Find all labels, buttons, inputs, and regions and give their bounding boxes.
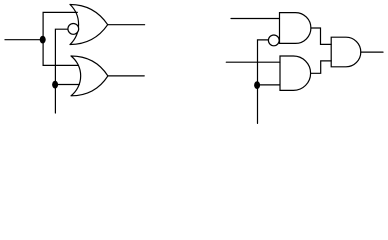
wire G5 output bbox=[361, 51, 383, 53]
junction node dot3 bbox=[254, 81, 260, 89]
junction node dot2 bbox=[52, 81, 58, 89]
wire A down branch to bottom OR input 1 bbox=[43, 40, 78, 66]
wire input C horizontal bbox=[231, 18, 280, 20]
wire input A horizontal bbox=[5, 39, 43, 41]
bubble on G3 lower input bbox=[268, 35, 279, 46]
wire G4 output to G5 input 2 bbox=[311, 61, 332, 73]
wire G1 output bbox=[108, 24, 145, 26]
wire input D horizontal bbox=[226, 61, 280, 63]
and-gate G4 (bottom right) bbox=[280, 56, 311, 90]
wire A up branch to top OR input 1 bbox=[43, 12, 77, 39]
wire G2 output bbox=[108, 75, 144, 77]
wire input E vertical with branches bbox=[258, 40, 269, 124]
wire E to bottom AND input 2 bbox=[258, 84, 280, 86]
wire B up branch to inverter bubble bbox=[55, 29, 68, 84]
wire input B vertical stub bbox=[54, 85, 56, 114]
bubble on G1 lower input bbox=[68, 24, 79, 35]
and-gate G5 (final right) bbox=[331, 37, 361, 67]
and-gate G3 (top right, inverted lower input) bbox=[280, 13, 311, 44]
wire G3 output to G5 input 1 bbox=[311, 28, 331, 44]
junction node dot1 bbox=[40, 36, 46, 44]
or-gate G1 (top left, inverted lower input) bbox=[70, 5, 108, 45]
or-gate G2 (bottom left) bbox=[71, 56, 108, 96]
wire B to bottom OR input 2 bbox=[55, 84, 79, 86]
